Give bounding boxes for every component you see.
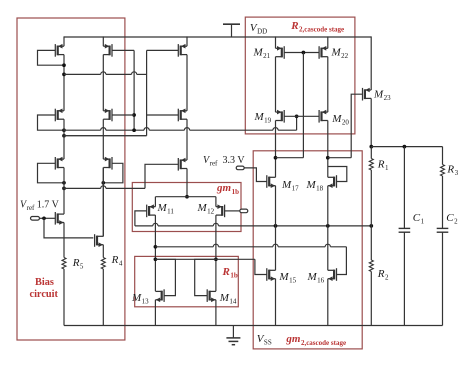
wire follower2 source: [102, 245, 104, 258]
input terminal: [240, 209, 248, 213]
wire C1 top: [403, 147, 405, 229]
transistor M9 (tail current source): [178, 158, 187, 171]
C2 label: [446, 212, 458, 226]
transistor M21: [276, 46, 285, 59]
wire col1 row2 drain: [63, 119, 65, 159]
node dot: [42, 216, 46, 220]
wire M21-M22 gate wire: [284, 52, 319, 54]
VSS label: [257, 333, 272, 347]
wire M17 source: [275, 186, 277, 271]
wire M5 gate lead: [112, 114, 134, 116]
wire M11 drain: [154, 215, 156, 291]
transistor M14: [207, 289, 216, 302]
wire M11 source: [154, 197, 156, 207]
wire M22 drain: [327, 57, 329, 112]
transistor M11: [147, 204, 156, 217]
M22 label: [331, 47, 349, 61]
wire R2 bottom: [370, 272, 372, 326]
M20 label: [331, 113, 349, 127]
C1 label: [413, 212, 425, 226]
wire M13 gate loop: [155, 259, 175, 295]
transistor M7 (bias row1 col3): [178, 44, 187, 57]
wire M18 gate loop: [328, 167, 347, 182]
wire M17 drain: [275, 121, 277, 178]
node dot: [62, 134, 66, 138]
node dot: [274, 224, 278, 228]
R2 cascode stage label: [290, 20, 344, 34]
wire Vref3.3 to M17 gate: [244, 168, 267, 182]
wire cascode node left: [276, 157, 304, 159]
resistor R4: [101, 258, 105, 270]
M23 label: [373, 89, 391, 103]
wire input down: [44, 218, 93, 238]
wire M21 drain: [275, 57, 277, 112]
ground: [226, 326, 240, 345]
bias circuit boundary box: [17, 18, 125, 340]
M21 label: [253, 47, 271, 61]
node dot: [369, 224, 373, 228]
resistor R2: [369, 260, 373, 272]
wire M8 gate lead: [147, 114, 179, 116]
Bias circuit label: [30, 277, 59, 300]
wire col2 gate bus: [133, 50, 135, 130]
wire row1 bias line: [64, 72, 147, 75]
node dot: [154, 257, 158, 261]
transistor M1 (bias row1 col1): [55, 44, 64, 57]
transistor M15: [267, 268, 276, 281]
wire M7 gate lead: [147, 49, 179, 51]
wire M23 drain: [370, 98, 372, 146]
wire col1 row1 drain: [63, 55, 65, 111]
M12 label: [197, 202, 215, 216]
wire M16 source: [327, 279, 329, 326]
gm2 cascode label: [285, 333, 346, 347]
R1b boundary box: [135, 256, 239, 306]
Vref 3.3 V label: [203, 155, 245, 168]
M13 label: [131, 292, 149, 306]
transistor M19: [276, 110, 285, 123]
svg-text:1.7 V: 1.7 V: [37, 200, 60, 211]
resistor R5: [62, 258, 66, 270]
transistor M16: [328, 268, 337, 281]
wire M11 gate: [135, 211, 147, 226]
resistor R1: [369, 159, 373, 171]
R2 cascode stage boundary box: [245, 17, 355, 134]
wire M15 source: [275, 279, 277, 326]
R4 label: [111, 254, 123, 268]
resistor R3: [441, 165, 445, 177]
wire col2 row1 drain: [102, 55, 104, 111]
node dot: [295, 114, 299, 118]
node dot: [403, 145, 407, 149]
node dot: [326, 156, 330, 160]
transistor M10a (follower 1): [55, 212, 64, 225]
wire R1 top: [370, 147, 372, 159]
capacitor C2: [437, 228, 449, 232]
wire col3 row2 drain: [186, 119, 188, 160]
svg-text:Bias: Bias: [35, 277, 54, 288]
wire follower1 source: [63, 223, 65, 238]
gm2 cascode stage boundary box: [253, 151, 362, 349]
wire col1 row3 drain: [63, 168, 65, 215]
transistor M10b (follower 2): [95, 234, 104, 247]
wire M16 gate loop: [337, 247, 347, 275]
wire M21 top: [275, 36, 277, 48]
node dot: [369, 145, 373, 149]
node dot: [62, 63, 66, 67]
wire M22 top: [327, 36, 329, 48]
wire R1 bottom: [370, 170, 372, 226]
wire M12 gate: [225, 210, 240, 212]
node dot: [132, 128, 136, 132]
R2 label: [377, 268, 389, 282]
Vref 1.7 V label: [20, 200, 60, 213]
wire C1 bottom: [403, 232, 405, 325]
node dot: [62, 187, 66, 191]
M17 label: [281, 179, 299, 193]
wire follower2 drain: [102, 168, 104, 237]
wire col1 top: [63, 36, 65, 46]
wire R5 bottom: [63, 269, 65, 326]
transistor M20: [319, 110, 328, 123]
wire R5 top: [63, 238, 65, 258]
VDD label: [250, 22, 267, 36]
wire M23 gate: [351, 94, 362, 158]
wire R4 bottom: [102, 269, 104, 326]
input terminal: [236, 166, 244, 170]
input terminal: [31, 217, 40, 221]
wire M14 gate loop: [195, 259, 216, 295]
wire M14 source: [215, 300, 217, 326]
transistor M23: [363, 88, 372, 101]
gm1b boundary box: [132, 183, 241, 232]
node dot: [214, 257, 218, 261]
VSS rail wire: [64, 325, 443, 327]
wire M23 source: [370, 36, 372, 90]
wire R3 bottom: [442, 176, 444, 228]
node dot: [302, 51, 306, 55]
transistor M17: [267, 175, 276, 188]
wire M3 gate loop: [38, 163, 65, 183]
M14 label: [219, 292, 237, 306]
transistor M4 (bias row1 col2): [103, 44, 112, 57]
R1b label: [222, 266, 238, 280]
M19 label: [254, 111, 272, 125]
transistor M6 (bias row3 col2): [103, 157, 112, 170]
wire input to gate: [40, 217, 56, 219]
wire B bias line: [64, 135, 147, 137]
wire col3 gate bus: [66, 50, 147, 135]
wire M12 drain: [215, 215, 217, 291]
wire col2 row3 drain: [102, 168, 104, 237]
wire cascode node right: [328, 157, 351, 159]
R5 label: [72, 257, 84, 271]
wire pmos cascode bias line: [64, 116, 297, 130]
node dot: [101, 181, 105, 185]
svg-text:circuit: circuit: [30, 289, 59, 300]
transistor M3 (bias row3 col1): [55, 157, 64, 170]
R3 label: [446, 164, 458, 178]
wire gate bus down: [302, 53, 304, 158]
wire M19-M20 gate wire: [284, 115, 319, 117]
capacitor C1: [399, 228, 411, 232]
node dot: [62, 128, 66, 132]
M16 label: [307, 271, 325, 285]
M18 label: [306, 179, 324, 193]
transistor M18: [328, 175, 337, 188]
node dot: [62, 181, 66, 185]
wire tail drain: [186, 169, 188, 197]
wire R3 top: [442, 147, 444, 165]
wire R2 top: [370, 226, 372, 260]
wire col3 top: [186, 36, 188, 46]
wire M1 gate loop: [38, 50, 65, 65]
VDD supply symbol: [223, 24, 240, 37]
M11 label: [157, 202, 175, 216]
transistor M8 (bias row2 col3): [178, 109, 187, 122]
transistor M22: [319, 46, 328, 59]
node dot: [326, 224, 330, 228]
transistor M2 (bias row2 col1): [55, 109, 64, 122]
wire M13 source: [154, 300, 156, 326]
node dot: [274, 156, 278, 160]
gm1b label: [216, 182, 239, 196]
node dot: [62, 73, 66, 77]
wire M12 source: [215, 197, 217, 207]
wire col2 row2 drain: [102, 119, 104, 159]
transistor M5 (bias row2 col2): [103, 109, 112, 122]
wire nmos mirror line: [155, 244, 346, 247]
wire col3 row1 drain: [186, 55, 188, 111]
node dot: [185, 195, 189, 199]
wire M18 source: [327, 186, 329, 271]
node dot: [132, 113, 136, 117]
transistor M12: [216, 204, 225, 217]
wire M2 gate loop: [38, 115, 65, 130]
wire feedback line: [135, 223, 371, 226]
wire M9 gate lead: [64, 164, 178, 188]
wire C2 bottom: [442, 232, 444, 325]
node dot: [154, 245, 158, 249]
wire M6 gate loop: [103, 163, 123, 183]
wire M4 gate lead: [112, 49, 134, 51]
R1 label: [377, 159, 389, 173]
wire col2 top: [102, 36, 104, 46]
transistor M13: [155, 289, 164, 302]
diff source wire: [155, 196, 216, 198]
wire M15 gate line: [155, 259, 266, 274]
svg-text:3.3 V: 3.3 V: [223, 155, 246, 166]
VDD rail wire: [64, 36, 371, 38]
wire output node: [371, 146, 442, 148]
wire M18 drain: [327, 121, 329, 178]
M15 label: [278, 271, 296, 285]
